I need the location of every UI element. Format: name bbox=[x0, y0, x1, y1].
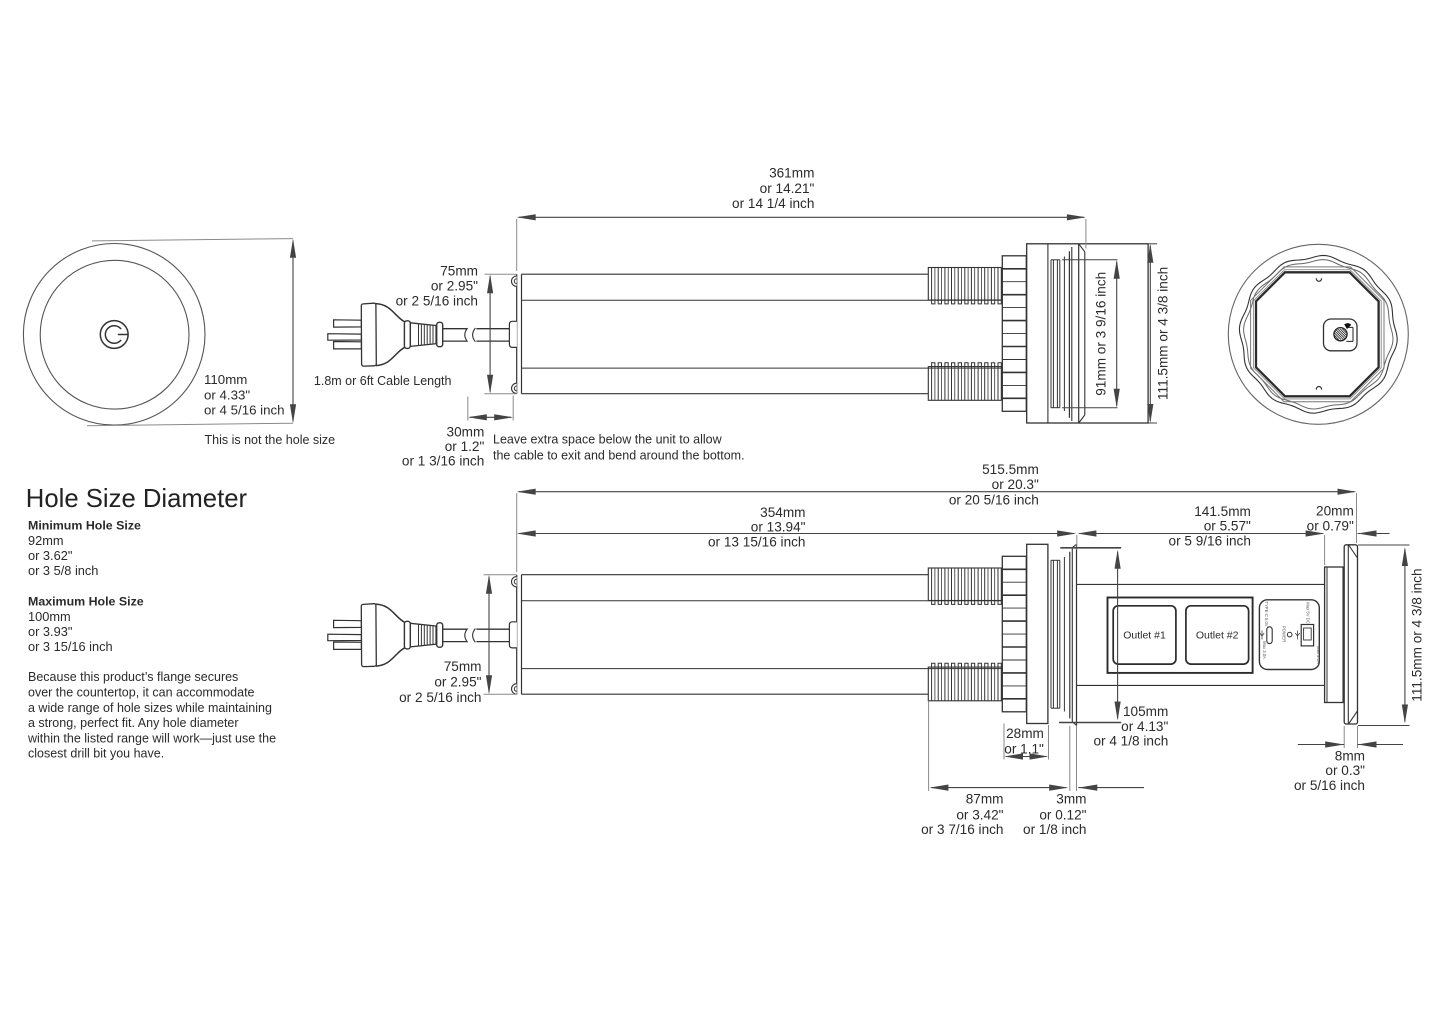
svg-text:POWER: POWER bbox=[1281, 626, 1286, 643]
svg-text:354mm: 354mm bbox=[760, 505, 805, 520]
svg-text:or 13 15/16 inch: or 13 15/16 inch bbox=[708, 535, 806, 550]
svg-text:or 3.42": or 3.42" bbox=[956, 807, 1003, 822]
svg-text:100mm: 100mm bbox=[28, 609, 71, 624]
svg-text:75mm: 75mm bbox=[444, 659, 482, 674]
svg-text:110mm: 110mm bbox=[204, 372, 247, 387]
svg-text:105mm: 105mm bbox=[1123, 704, 1168, 719]
svg-text:or 2.95": or 2.95" bbox=[431, 279, 478, 294]
svg-text:87mm: 87mm bbox=[966, 792, 1004, 807]
svg-text:or 5/16 inch: or 5/16 inch bbox=[1294, 778, 1365, 793]
svg-text:or 2 5/16 inch: or 2 5/16 inch bbox=[399, 690, 481, 705]
svg-text:or 4 5/16 inch: or 4 5/16 inch bbox=[204, 403, 285, 418]
svg-text:361mm: 361mm bbox=[769, 165, 814, 180]
svg-text:28mm: 28mm bbox=[1006, 726, 1044, 741]
svg-text:Outlet #2: Outlet #2 bbox=[1196, 630, 1239, 642]
svg-text:within the listed range will w: within the listed range will work—just u… bbox=[27, 731, 276, 745]
svg-text:a strong, perfect fit. Any hol: a strong, perfect fit. Any hole diameter bbox=[28, 716, 239, 730]
svg-text:91mm or 3 9/16 inch: 91mm or 3 9/16 inch bbox=[1093, 272, 1108, 396]
svg-text:20mm: 20mm bbox=[1316, 504, 1354, 519]
svg-text:or 3.62": or 3.62" bbox=[28, 548, 72, 563]
svg-text:or 4.33": or 4.33" bbox=[204, 388, 250, 403]
svg-text:or 0.12": or 0.12" bbox=[1039, 807, 1086, 822]
svg-text:30mm: 30mm bbox=[447, 424, 485, 439]
svg-text:or 3 15/16 inch: or 3 15/16 inch bbox=[28, 639, 113, 654]
svg-text:141.5mm: 141.5mm bbox=[1194, 504, 1251, 519]
svg-text:Max 2.1A: Max 2.1A bbox=[1316, 646, 1321, 664]
svg-text:111.5mm or 4 3/8 inch: 111.5mm or 4 3/8 inch bbox=[1410, 568, 1425, 701]
svg-text:or 5 9/16 inch: or 5 9/16 inch bbox=[1169, 534, 1251, 549]
svg-text:TYPE-C 5.0V: TYPE-C 5.0V bbox=[1264, 601, 1269, 626]
svg-text:or 14.21": or 14.21" bbox=[760, 181, 815, 196]
svg-text:or 1.1": or 1.1" bbox=[1004, 741, 1044, 756]
svg-text:or 4.13": or 4.13" bbox=[1121, 719, 1168, 734]
svg-text:Max 5V DC: Max 5V DC bbox=[1306, 602, 1311, 623]
svg-text:or 0.3": or 0.3" bbox=[1325, 763, 1365, 778]
svg-text:closest drill bit you have.: closest drill bit you have. bbox=[28, 747, 164, 761]
svg-text:or 1.2": or 1.2" bbox=[445, 439, 485, 454]
svg-text:75mm: 75mm bbox=[440, 264, 478, 279]
svg-text:3mm: 3mm bbox=[1056, 792, 1086, 807]
svg-text:or 5.57": or 5.57" bbox=[1204, 519, 1251, 534]
svg-text:Max 3.0A: Max 3.0A bbox=[1262, 641, 1267, 659]
svg-text:Maximum Hole Size: Maximum Hole Size bbox=[28, 595, 144, 609]
svg-text:1.8m or 6ft Cable Length: 1.8m or 6ft Cable Length bbox=[314, 374, 452, 388]
svg-text:or 20 5/16 inch: or 20 5/16 inch bbox=[949, 493, 1039, 508]
svg-text:Outlet #1: Outlet #1 bbox=[1123, 630, 1166, 642]
svg-text:Leave extra space below the un: Leave extra space below the unit to allo… bbox=[493, 432, 723, 446]
svg-text:111.5mm or 4 3/8 inch: 111.5mm or 4 3/8 inch bbox=[1155, 267, 1170, 400]
svg-text:92mm: 92mm bbox=[28, 533, 64, 548]
svg-text:or 0.79": or 0.79" bbox=[1307, 519, 1354, 534]
svg-text:Because this product’s flange: Because this product’s flange secures bbox=[28, 670, 238, 684]
svg-text:or 3 5/8 inch: or 3 5/8 inch bbox=[28, 563, 98, 578]
svg-text:over the countertop, it can ac: over the countertop, it can accommodate bbox=[28, 686, 255, 700]
svg-text:8mm: 8mm bbox=[1335, 748, 1365, 763]
svg-text:or 2 5/16 inch: or 2 5/16 inch bbox=[396, 293, 478, 308]
svg-text:the cable to exit and bend aro: the cable to exit and bend around the bo… bbox=[493, 449, 745, 463]
svg-text:This is not the hole size: This is not the hole size bbox=[205, 433, 336, 447]
svg-text:or 1 3/16 inch: or 1 3/16 inch bbox=[402, 454, 484, 469]
svg-text:or 4 1/8 inch: or 4 1/8 inch bbox=[1093, 734, 1168, 749]
svg-text:515.5mm: 515.5mm bbox=[982, 462, 1039, 477]
svg-text:or 14 1/4 inch: or 14 1/4 inch bbox=[732, 196, 814, 211]
svg-text:Minimum Hole Size: Minimum Hole Size bbox=[28, 519, 141, 533]
svg-text:Hole Size Diameter: Hole Size Diameter bbox=[26, 485, 248, 513]
svg-text:or 2.95": or 2.95" bbox=[434, 675, 481, 690]
svg-text:or 13.94": or 13.94" bbox=[751, 520, 806, 535]
svg-text:or 1/8 inch: or 1/8 inch bbox=[1023, 822, 1086, 837]
svg-text:or 3 7/16 inch: or 3 7/16 inch bbox=[921, 822, 1003, 837]
svg-text:a wide range of hole sizes whi: a wide range of hole sizes while maintai… bbox=[28, 701, 272, 715]
svg-text:or 20.3": or 20.3" bbox=[992, 477, 1039, 492]
svg-text:or 3.93": or 3.93" bbox=[28, 624, 72, 639]
